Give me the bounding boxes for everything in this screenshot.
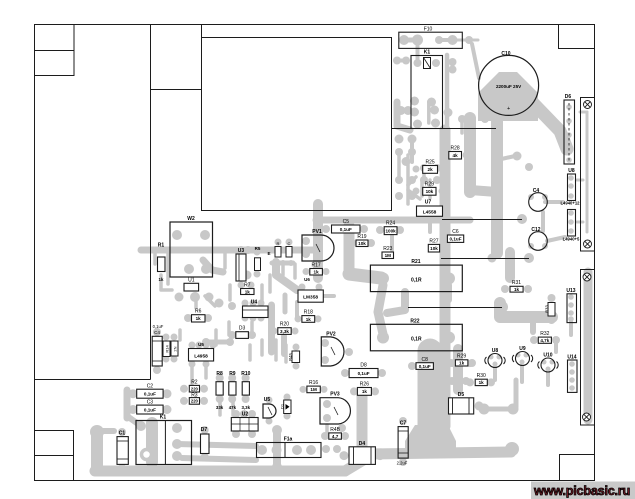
- svg-text:1M: 1M: [385, 253, 392, 258]
- svg-text:R: R: [277, 241, 280, 246]
- connector bracket right bottom: [581, 270, 595, 426]
- svg-text:1k: 1k: [245, 289, 251, 294]
- svg-text:R31: R31: [512, 280, 521, 286]
- diode D4: [349, 441, 375, 464]
- svg-text:R33: R33: [545, 304, 550, 312]
- svg-text:E: E: [267, 251, 270, 256]
- svg-text:D3: D3: [239, 326, 246, 332]
- resistor R33: [545, 303, 556, 317]
- connector bracket right top: [581, 98, 595, 252]
- svg-text:C4: C4: [533, 188, 540, 194]
- svg-text:4k: 4k: [453, 153, 459, 158]
- svg-text:10k: 10k: [358, 241, 366, 246]
- resistor R32: [538, 331, 551, 343]
- corner blocks bottom-left: [35, 431, 74, 456]
- svg-text:R9: R9: [229, 371, 236, 377]
- op-amp U5: [189, 342, 214, 361]
- svg-text:R1: R1: [158, 243, 165, 249]
- resistor R31: [510, 280, 523, 292]
- capacitor C8: [416, 357, 433, 369]
- svg-text:4,7: 4,7: [332, 434, 339, 439]
- capacitor C6: [447, 229, 463, 242]
- resistor R27: [428, 239, 439, 253]
- svg-text:L4558: L4558: [423, 210, 437, 216]
- svg-text:R22: R22: [410, 318, 419, 324]
- svg-text:3,3k: 3,3k: [280, 329, 289, 334]
- svg-text:4,7k: 4,7k: [540, 338, 549, 343]
- svg-text:U4: U4: [251, 300, 258, 306]
- svg-text:U8: U8: [492, 348, 499, 354]
- svg-text:U5: U5: [198, 342, 204, 347]
- svg-text:R19: R19: [357, 234, 366, 240]
- resistor R1: [158, 243, 166, 283]
- fuse F1: [257, 437, 322, 458]
- resistor R28: [449, 146, 462, 160]
- connector U2: [231, 412, 258, 432]
- corner block top-right: [559, 25, 595, 49]
- svg-text:C8: C8: [421, 357, 428, 363]
- resistor R20: [278, 322, 291, 335]
- transistor U9b: [512, 346, 532, 366]
- svg-text:100k: 100k: [385, 228, 396, 233]
- svg-text:L4940+12: L4940+12: [561, 201, 581, 206]
- svg-text:R30: R30: [477, 373, 486, 379]
- resistor R8: [216, 371, 224, 410]
- resistor R18: [302, 310, 315, 323]
- resistor R25: [423, 160, 438, 174]
- transformer W2: [170, 216, 213, 277]
- diode D1: [280, 400, 292, 414]
- svg-text:C7: C7: [400, 421, 407, 427]
- svg-text:0,1uF: 0,1uF: [144, 392, 156, 397]
- resistor R17: [310, 263, 323, 276]
- svg-text:D7: D7: [201, 427, 208, 433]
- capacitor C12: [529, 227, 548, 250]
- svg-text:L4958: L4958: [194, 353, 208, 359]
- svg-text:U7: U7: [425, 200, 432, 206]
- svg-text:K1: K1: [160, 415, 167, 421]
- svg-text:L4940+5: L4940+5: [563, 237, 580, 242]
- svg-text:R29: R29: [457, 354, 466, 360]
- svg-text:D5: D5: [458, 392, 465, 398]
- svg-text:2,2uF: 2,2uF: [397, 461, 408, 466]
- svg-text:LM358: LM358: [303, 295, 318, 301]
- screw holes: [584, 101, 592, 109]
- connector U14: [567, 355, 577, 393]
- capacitor C1: [117, 431, 128, 465]
- svg-text:220: 220: [191, 399, 199, 404]
- corner block bottom-right: [560, 455, 595, 481]
- svg-text:2200uF 25V: 2200uF 25V: [496, 84, 522, 89]
- svg-text:K1: K1: [424, 50, 431, 56]
- svg-text:10k: 10k: [430, 246, 438, 251]
- svg-text:R18: R18: [304, 310, 313, 316]
- svg-text:U10: U10: [543, 353, 552, 359]
- svg-text:10k: 10k: [426, 189, 434, 194]
- regulator U3: [236, 248, 246, 281]
- power resistor R21: [370, 259, 462, 292]
- svg-text:R29: R29: [425, 182, 434, 188]
- svg-text:R10: R10: [241, 371, 250, 377]
- svg-text:R20: R20: [280, 322, 289, 328]
- transistor PV2: [321, 332, 344, 367]
- svg-text:R7: R7: [244, 283, 251, 289]
- svg-text:R45: R45: [288, 352, 293, 360]
- svg-text:0,1uF: 0,1uF: [340, 227, 352, 232]
- svg-text:1k: 1k: [479, 380, 485, 385]
- diode D9: [267, 241, 292, 257]
- svg-text:R2: R2: [191, 380, 198, 386]
- svg-text:C12: C12: [531, 227, 540, 233]
- svg-text:0,1uF: 0,1uF: [153, 324, 164, 329]
- resistor R16: [307, 380, 320, 393]
- svg-text:R6: R6: [195, 309, 202, 315]
- resistor R14: [163, 341, 170, 357]
- svg-text:U9: U9: [519, 346, 526, 352]
- resistor N2: [171, 341, 178, 356]
- svg-text:R25: R25: [426, 160, 435, 166]
- svg-text:0,1uF: 0,1uF: [358, 371, 370, 376]
- svg-text:www.picbasic.ru: www.picbasic.ru: [533, 483, 630, 498]
- svg-text:C1: C1: [119, 431, 126, 437]
- svg-text:3,3k: 3,3k: [242, 405, 251, 410]
- column lines: [150, 25, 152, 380]
- transistor PV1: [302, 229, 334, 261]
- svg-text:PV1: PV1: [312, 229, 322, 235]
- resistor R24: [384, 221, 397, 235]
- svg-text:220: 220: [191, 387, 199, 392]
- svg-text:C6: C6: [452, 229, 459, 235]
- capacitor C4: [529, 188, 548, 211]
- svg-text:1k: 1k: [514, 287, 520, 292]
- resistor R2: [189, 380, 199, 393]
- leader wires: [392, 128, 497, 130]
- svg-text:R14: R14: [165, 345, 170, 353]
- svg-text:F1a: F1a: [284, 437, 293, 443]
- transistor U8b: [485, 348, 505, 368]
- resistor R29b: [455, 354, 468, 367]
- resistor R30: [475, 373, 487, 386]
- svg-text:R21: R21: [411, 259, 420, 265]
- svg-text:U5: U5: [264, 397, 271, 403]
- fuse F10: [399, 27, 463, 49]
- svg-text:F10: F10: [424, 27, 433, 33]
- svg-text:1k: 1k: [159, 277, 164, 282]
- corner block top-left: [35, 25, 75, 76]
- resistor R29: [423, 182, 436, 196]
- svg-text:2N: 2N: [173, 346, 178, 351]
- svg-text:C3: C3: [147, 400, 154, 406]
- svg-text:47k: 47k: [229, 405, 237, 410]
- svg-text:33k: 33k: [216, 405, 224, 410]
- svg-text:W2: W2: [187, 216, 195, 222]
- svg-text:1k: 1k: [314, 270, 320, 275]
- svg-text:R27: R27: [429, 239, 438, 245]
- resistor R26: [357, 382, 371, 396]
- resistor R10: [241, 371, 250, 410]
- svg-text:R5: R5: [255, 246, 261, 251]
- op-amp U7: [417, 200, 443, 217]
- svg-text:0,1uF: 0,1uF: [419, 364, 431, 369]
- svg-text:U2: U2: [242, 412, 249, 418]
- relay K1: [411, 50, 443, 129]
- svg-text:U3: U3: [238, 248, 245, 254]
- capacitor C3: [137, 400, 163, 415]
- svg-text:D8: D8: [360, 363, 367, 369]
- capacitor C4b: [152, 324, 164, 366]
- solder pads / junctions: [90, 35, 575, 473]
- svg-text:0,1R: 0,1R: [411, 278, 422, 284]
- svg-text:PV3: PV3: [330, 392, 340, 398]
- svg-text:R23: R23: [383, 246, 392, 252]
- relay K1b: [136, 415, 192, 465]
- svg-text:C5: C5: [343, 219, 350, 225]
- svg-text:R17: R17: [312, 263, 321, 269]
- svg-text:0,1uF: 0,1uF: [144, 407, 156, 412]
- svg-text:1k: 1k: [196, 316, 202, 321]
- svg-text:D6: D6: [565, 94, 572, 100]
- transformer zone rectangle: [202, 38, 392, 211]
- svg-text:2k: 2k: [428, 167, 434, 172]
- diode D7: [201, 427, 210, 454]
- svg-text:0,1R: 0,1R: [411, 337, 422, 343]
- capacitor C10: [479, 51, 539, 115]
- resistor R19: [356, 234, 368, 247]
- svg-text:U8: U8: [568, 168, 575, 174]
- svg-text:R16: R16: [309, 380, 318, 386]
- connector U4: [243, 300, 269, 318]
- capacitor C5: [332, 219, 361, 233]
- capacitor C7: [397, 421, 409, 466]
- resistor R7: [241, 283, 254, 295]
- svg-text:C: C: [288, 241, 291, 246]
- svg-text:D4: D4: [359, 441, 366, 447]
- regulator U9: [563, 210, 580, 242]
- svg-text:+: +: [507, 106, 510, 112]
- resistor R45: [288, 351, 300, 363]
- connector U13: [566, 288, 576, 323]
- watermark: [531, 482, 635, 499]
- transistor PV3: [320, 392, 350, 425]
- resistor R5: [255, 246, 261, 271]
- svg-text:R32: R32: [540, 331, 549, 337]
- svg-text:U1: U1: [188, 278, 195, 284]
- op-amp U6: [298, 277, 323, 302]
- diode D5: [449, 392, 474, 414]
- svg-text:R4B: R4B: [330, 427, 340, 433]
- svg-text:1k: 1k: [459, 361, 465, 366]
- jumper U1: [184, 278, 199, 292]
- resistor R3: [189, 393, 199, 405]
- svg-text:R8: R8: [216, 371, 223, 377]
- resistor R6: [192, 309, 206, 323]
- svg-text:1M: 1M: [310, 387, 317, 392]
- svg-text:C10: C10: [501, 51, 510, 57]
- capacitor D8: [349, 363, 378, 378]
- svg-text:U6: U6: [304, 277, 310, 282]
- transistor U5b: [263, 397, 276, 418]
- resistor R48: [329, 427, 342, 439]
- svg-text:C4: C4: [154, 330, 160, 335]
- svg-text:R24: R24: [386, 221, 395, 227]
- svg-text:D1: D1: [280, 403, 285, 409]
- wire copper traces: [95, 40, 588, 471]
- resistor R9: [229, 371, 237, 410]
- capacitor C2: [137, 384, 163, 399]
- diode D3: [236, 326, 249, 339]
- svg-text:R3: R3: [191, 393, 198, 399]
- diode D6: [564, 94, 575, 164]
- svg-text:C2: C2: [147, 384, 154, 390]
- resistor R23: [382, 246, 394, 259]
- svg-text:1k: 1k: [362, 389, 368, 394]
- svg-text:0,1uF: 0,1uF: [450, 237, 462, 242]
- transistor U10: [538, 353, 558, 373]
- regulator U8: [561, 168, 581, 206]
- svg-text:1k: 1k: [306, 317, 312, 322]
- svg-text:R26: R26: [360, 382, 369, 388]
- power resistor R22: [370, 318, 462, 351]
- svg-text:U13: U13: [566, 288, 575, 294]
- svg-text:PV2: PV2: [326, 332, 336, 338]
- svg-text:U14: U14: [567, 355, 576, 361]
- svg-text:R28: R28: [451, 146, 460, 152]
